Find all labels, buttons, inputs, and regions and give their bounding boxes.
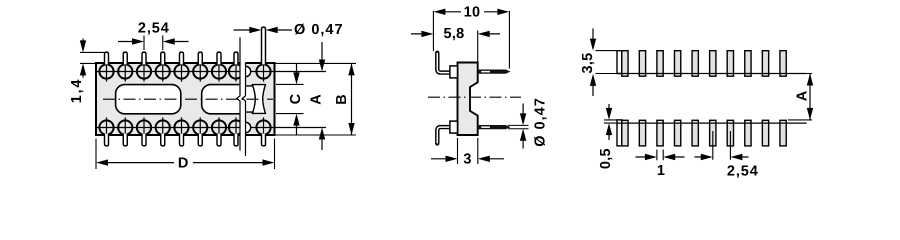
- dimension 5,8 arrows: [411, 33, 500, 35]
- svg-text:Ø 0,47: Ø 0,47: [533, 97, 549, 147]
- dimension 0,5 arrows: [608, 104, 610, 140]
- center cavity cutout 2 (cut by break): [202, 85, 241, 114]
- dash-dot centerline: [428, 96, 521, 98]
- dimension 2,54 arrows: [118, 41, 189, 43]
- bent pin bottom-left: [437, 127, 451, 143]
- right side extension lines (body top, cavity edges, body bottom): [276, 63, 357, 135]
- cavity channel strip at break face: [246, 86, 254, 112]
- dimension D extension lines: [96, 139, 275, 170]
- dimension 10 extension lines: [433, 11, 509, 69]
- svg-text:2,54: 2,54: [727, 163, 759, 179]
- dimension 1,4 arrows: [82, 39, 84, 78]
- contact hole circles row 2: [99, 120, 270, 134]
- dimension 1 arrows: [636, 156, 685, 158]
- break-face contact notch (top row): [246, 66, 251, 76]
- crosshair vertical lines row 2: [107, 117, 264, 137]
- socket body profile (end view): [458, 63, 478, 136]
- straight pin bottom-right: [478, 125, 510, 128]
- dimension 0,5 extension lines: [604, 120, 623, 123]
- dimension 3 extension lines: [458, 138, 478, 164]
- svg-text:B: B: [334, 94, 350, 105]
- dimension 1,4 extension lines: [80, 52, 104, 63]
- dimension 1 extension lines: [657, 150, 663, 161]
- row 2 centerline and A-dimension extension: [97, 127, 326, 129]
- pitch reference centerlines on two pins: [713, 131, 731, 160]
- bottom row flat pins: [622, 120, 786, 146]
- svg-text:D: D: [178, 156, 189, 172]
- RIGHT VIEW: [580, 29, 813, 180]
- dimension diameter 0,47 extension lines: [508, 125, 529, 128]
- top row flat pins: [622, 51, 786, 76]
- break line right: [242, 63, 245, 156]
- bottom pins row: [105, 134, 266, 146]
- straight pin top-right: [478, 70, 510, 73]
- dimension A line and arrows: [809, 74, 811, 120]
- dimension 3,5 extension lines: [596, 51, 619, 74]
- contact hole circles row 1: [99, 64, 270, 78]
- end pin plate top: [617, 51, 622, 74]
- end pin plate bottom: [617, 120, 622, 146]
- top row bend line: [617, 73, 807, 75]
- dimension D line and arrows: [106, 162, 265, 164]
- bottom row bend line: [617, 122, 807, 124]
- contact collar top: [450, 66, 458, 78]
- svg-text:3: 3: [463, 152, 471, 168]
- svg-text:Ø 0,47: Ø 0,47: [294, 22, 344, 38]
- long pin for diameter callout: [262, 27, 266, 64]
- contact collar bottom: [450, 121, 458, 133]
- MIDDLE VIEW: [411, 5, 549, 168]
- socket body (right portion after break): [246, 63, 275, 135]
- svg-text:3,5: 3,5: [580, 52, 596, 73]
- dimension 5,8 extension line: [477, 31, 479, 63]
- LEFT VIEW: [69, 20, 356, 171]
- break-face contact notch (bottom row): [246, 122, 251, 132]
- horizontal dash-dot centerline: [103, 98, 273, 100]
- svg-text:C: C: [288, 93, 304, 104]
- dimension 2,54 arrows: [695, 156, 749, 158]
- dimension C arrows: [296, 64, 298, 135]
- svg-text:A: A: [795, 90, 811, 101]
- break line left: [237, 38, 240, 151]
- dimension A arrows: [321, 42, 323, 150]
- dimension 3,5 arrows: [592, 29, 594, 97]
- svg-text:10: 10: [464, 5, 481, 21]
- dimension B line and arrows: [351, 63, 353, 135]
- dimension 2,54 extension lines: [144, 36, 163, 51]
- dimension 10 line and arrows: [443, 11, 499, 13]
- svg-text:1,4: 1,4: [69, 78, 85, 104]
- svg-text:1: 1: [657, 163, 665, 179]
- crosshair vertical lines row 1: [107, 62, 264, 82]
- svg-text:5,8: 5,8: [443, 26, 464, 42]
- socket body (left portion, top view): [96, 63, 240, 135]
- dimension diameter 0,47 arrows: [522, 104, 524, 149]
- svg-text:A: A: [309, 94, 325, 105]
- dimension 3 arrows: [431, 158, 504, 160]
- row 1 centerline and A-dimension extension: [97, 71, 326, 73]
- svg-text:0,5: 0,5: [598, 148, 614, 169]
- top pins row: [105, 52, 239, 64]
- contact slot column with waisted sides: [252, 85, 265, 114]
- center cavity cutout 1: [116, 85, 181, 114]
- dimension diameter 0,47 leader arrows: [234, 29, 293, 31]
- dimension A extension lines: [788, 74, 812, 120]
- bent pin top-left: [437, 53, 451, 73]
- svg-text:2,54: 2,54: [138, 20, 170, 36]
